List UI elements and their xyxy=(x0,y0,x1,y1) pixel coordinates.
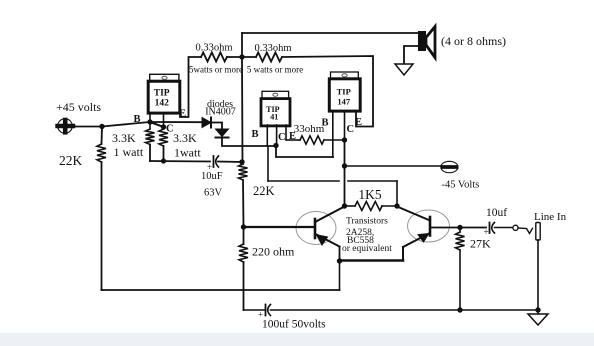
svg-text:100uf 50volts: 100uf 50volts xyxy=(262,319,326,331)
svg-text:-45 Volts: -45 Volts xyxy=(442,180,480,191)
node: dot at ground xyxy=(535,307,540,312)
svg-text:TIP: TIP xyxy=(154,89,170,99)
svg-text:10uf: 10uf xyxy=(486,207,507,219)
svg-text:Line In: Line In xyxy=(534,211,567,223)
svg-text:(4 or 8 ohms): (4 or 8 ohms) xyxy=(441,34,506,48)
svg-text:TIP: TIP xyxy=(337,87,351,97)
wire: centre rail vertical (output node down) xyxy=(241,57,244,162)
wire: 33ohm right lead to Q3 collector line xyxy=(324,139,345,141)
svg-text:22K: 22K xyxy=(253,184,275,198)
wire: Q5 base wire to input xyxy=(430,227,486,229)
speaker SPK1 xyxy=(418,27,435,58)
wire: top output rail to speaker xyxy=(242,32,418,34)
svg-text:5 watts or more: 5 watts or more xyxy=(247,65,303,75)
transistor Q5 (right PNP) xyxy=(397,207,450,248)
transistor Q4 (left PNP) xyxy=(296,207,345,247)
resistor R9 1K5 xyxy=(355,202,382,211)
wire: bottom rail left of C3 xyxy=(244,309,266,311)
svg-text:5watts or more: 5watts or more xyxy=(189,65,243,75)
svg-text:22K: 22K xyxy=(59,153,83,168)
resistor R5 3.3K (right of pair) xyxy=(159,129,168,146)
wire: feedback horizontal left part xyxy=(268,180,339,182)
wire: output rail vertical drop xyxy=(241,33,243,57)
svg-text:0.33ohm: 0.33ohm xyxy=(254,43,291,54)
svg-text:C: C xyxy=(347,124,355,135)
wire: R2 right lead to E riser of Q3 TIP147 xyxy=(282,56,373,127)
svg-text:10uF: 10uF xyxy=(201,171,223,182)
wire: 22K top lead xyxy=(101,127,104,145)
jack J1 Line In xyxy=(536,223,540,241)
wire: -45V rail xyxy=(345,165,442,167)
wire: base node down to 220ohm xyxy=(243,227,245,244)
svg-text:27K: 27K xyxy=(470,237,491,251)
node: dot at Q1 base xyxy=(147,119,152,124)
transistor Q3 TIP147 package xyxy=(329,72,360,111)
wire: contact to plug notch xyxy=(518,228,533,234)
wire: emitters horizontal link xyxy=(340,259,404,262)
diode D2 IN4007 xyxy=(216,129,229,138)
node: dot emitters junction xyxy=(337,258,342,263)
resistor R1 0.33ohm xyxy=(201,53,227,62)
resistor R2 0.33ohm xyxy=(256,53,282,62)
capacitor C1 10uF 63V xyxy=(214,156,219,167)
svg-text:or equivalent: or equivalent xyxy=(342,244,392,254)
pin B of Q2 xyxy=(266,125,268,146)
node: dot at Q3 collector / 33ohm xyxy=(342,137,347,142)
pin B of Q1 xyxy=(149,113,151,129)
node: dot at Q1 C pin xyxy=(161,124,166,129)
node: dot 1K5 right xyxy=(394,203,399,208)
terminal -45V xyxy=(441,161,458,172)
svg-text:IN4007: IN4007 xyxy=(205,107,236,118)
wire: Q4 base wire xyxy=(244,226,315,228)
svg-text:3.3K: 3.3K xyxy=(173,131,197,145)
svg-text:142: 142 xyxy=(155,98,170,108)
capacitor C2 10uf (input) xyxy=(490,223,495,234)
svg-text:147: 147 xyxy=(337,97,351,107)
svg-text:B: B xyxy=(321,118,328,129)
wire: bottom rail to right ground xyxy=(271,309,539,311)
wire: Q2 emitter to 33ohm xyxy=(287,139,300,141)
terminal +45V input xyxy=(58,119,74,134)
wire: D1 to D2 xyxy=(211,123,222,130)
wire: centre rail 162 to 22K2 xyxy=(242,162,245,164)
wire: 27K bottom to ground rail xyxy=(459,250,461,310)
svg-text:1watt: 1watt xyxy=(174,146,201,160)
wire: resistor bottoms to 10uF cap xyxy=(150,160,210,163)
svg-text:+: + xyxy=(207,162,212,172)
wire: B-C jog of Q1 xyxy=(150,122,164,127)
resistor R7 220 ohm xyxy=(239,244,248,262)
node: dot at Q2 collector xyxy=(273,143,278,148)
resistor R6 22K (centre) xyxy=(239,164,248,180)
resistor R3 22K (left) xyxy=(97,144,106,162)
svg-text:3.3K: 3.3K xyxy=(112,131,136,145)
node: dot 1K5 left xyxy=(342,203,347,208)
wire: R4 bottom lead xyxy=(149,145,151,162)
wire: jack sleeve down to ground xyxy=(537,240,539,310)
svg-text:+: + xyxy=(484,227,489,237)
transistor Q1 TIP142 package xyxy=(148,74,180,113)
wire: C1 to centre rail xyxy=(218,161,242,164)
node: dot 27K bottom xyxy=(457,307,462,312)
wire: D2 down and right to Q2 TIP41 xyxy=(222,138,276,147)
transistor Q2 TIP41 package xyxy=(261,91,290,126)
svg-text:E: E xyxy=(179,109,186,120)
wire: Q4 emitter down xyxy=(339,247,341,262)
node: dot on -45V rail xyxy=(342,163,347,168)
wire: right emitter riser xyxy=(402,247,404,261)
ground GND1 (speaker) xyxy=(395,64,413,75)
pin C of Q2 xyxy=(276,125,278,146)
wire: feedback horizontal right part after hop xyxy=(348,180,397,182)
resistor R4 3.3K (left of pair) xyxy=(146,129,155,145)
wire: 1K5 left lead xyxy=(345,205,356,207)
node: dot on centre rail at C1 xyxy=(239,159,244,164)
wire: Q3 collector to 1K5 left node xyxy=(344,166,346,206)
wire: feedback riser from Q2 base node xyxy=(267,146,269,181)
svg-text:C: C xyxy=(278,132,286,143)
wire: R5 bottom lead xyxy=(163,146,165,161)
capacitor C3 100uf 50volts xyxy=(266,305,271,316)
node: dot on +45V rail xyxy=(99,124,104,129)
node: dot at 27K top xyxy=(457,225,462,230)
svg-text:41: 41 xyxy=(270,113,278,122)
wire: 1K5 right lead xyxy=(382,205,397,207)
wire: Q3 base pin vertical xyxy=(332,111,334,157)
terminal: open contact circle xyxy=(513,225,518,230)
svg-text:33ohm: 33ohm xyxy=(294,123,325,135)
wire: Q2 collector U-link to Q3 base xyxy=(276,146,333,158)
svg-text:1K5: 1K5 xyxy=(358,187,381,202)
wire: C2 to jack xyxy=(495,227,514,229)
pin C of Q1 xyxy=(163,113,165,129)
svg-text:+45 volts: +45 volts xyxy=(56,100,101,114)
wire: speaker return to ground xyxy=(404,46,418,64)
wire: left 0.33ohm left lead and E riser of Q1 TIP142 xyxy=(180,57,201,117)
svg-text:220 ohm: 220 ohm xyxy=(252,245,295,259)
wire: +45V rail to Q1 base xyxy=(72,122,150,127)
wire: 22K bottom long left rail xyxy=(101,162,103,290)
wire: 220ohm bottom to corner xyxy=(243,262,245,310)
wire: long lower-left return rail xyxy=(102,289,340,291)
svg-text:Transistors: Transistors xyxy=(346,217,388,227)
wire: Q1 base/collector row to diode D1 xyxy=(150,121,202,123)
node: dot at R5 bottom xyxy=(161,158,166,163)
node: dot at Q4 base wire xyxy=(241,224,246,229)
wire: Q3 collector down to -45V rail xyxy=(344,140,346,166)
svg-text:1 watt: 1 watt xyxy=(114,145,144,159)
resistor R10 27K xyxy=(456,232,465,250)
wire: emitters junction down to return rail xyxy=(339,261,341,290)
svg-text:63V: 63V xyxy=(204,188,223,199)
svg-text:E: E xyxy=(355,117,362,128)
pin E of Q2 xyxy=(285,125,287,140)
svg-text:B: B xyxy=(251,129,258,140)
wire: feedback drop to 1K5 right node xyxy=(396,181,398,206)
bottom band xyxy=(0,333,594,346)
svg-text:0.33ohm: 0.33ohm xyxy=(195,43,232,54)
diode D1 IN4007 xyxy=(202,118,211,128)
wire: 27K top stub xyxy=(459,228,461,233)
wire: centre rail to base node xyxy=(242,180,245,227)
resistor R8 33ohm xyxy=(300,136,324,144)
wire: R1 right lead xyxy=(227,56,256,58)
svg-text:B: B xyxy=(133,114,140,125)
node: output junction dot xyxy=(239,54,244,59)
pin C of Q3 xyxy=(344,111,346,140)
ground GND2 (bottom right) xyxy=(537,310,539,314)
